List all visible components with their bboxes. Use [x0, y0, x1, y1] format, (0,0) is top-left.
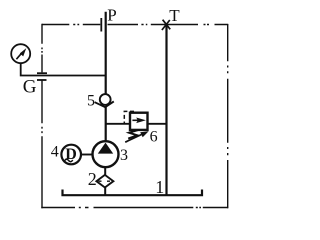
- wire: pump to filter: [104, 167, 106, 175]
- motor 4: [61, 145, 81, 165]
- pressure gauge: [11, 44, 30, 63]
- svg-text:D: D: [65, 146, 77, 163]
- relief valve 6 pilot line (dashed): [124, 111, 134, 123]
- svg-text:G: G: [23, 76, 37, 97]
- measuring coupling tick upper: [37, 72, 47, 74]
- svg-text:1: 1: [155, 177, 164, 197]
- port T plug mark (X): [162, 20, 170, 30]
- svg-text:2: 2: [88, 169, 97, 189]
- pump 3: [93, 141, 119, 167]
- enclosure boundary top edge (chain line): [42, 24, 100, 26]
- svg-text:T: T: [169, 6, 180, 25]
- motor shaft: [81, 154, 93, 156]
- svg-text:5: 5: [87, 93, 95, 110]
- tank (open reservoir): [63, 190, 203, 196]
- port P boundary tick: [100, 18, 102, 32]
- relief valve 6 body: [130, 113, 148, 130]
- relief valve 6 spring: [128, 130, 138, 139]
- enclosure boundary right edge (chain line): [227, 24, 229, 208]
- wire: T return line down to tank: [165, 25, 167, 196]
- svg-text:6: 6: [150, 128, 158, 145]
- enclosure boundary left edge (chain line): [41, 24, 43, 73]
- wire: relief valve outlet to T line: [148, 123, 167, 125]
- svg-text:4: 4: [51, 144, 59, 161]
- wire: filter to tank: [104, 188, 106, 196]
- filter 2: [96, 175, 113, 188]
- motor AC tilde: [64, 159, 72, 161]
- svg-text:3: 3: [120, 147, 128, 164]
- wire: P port line: [105, 12, 107, 95]
- relief valve 6 adjusting arrow: [125, 135, 141, 143]
- measuring coupling tick lower: [37, 79, 47, 81]
- wire: gauge stem: [21, 63, 106, 75]
- svg-text:P: P: [107, 6, 116, 25]
- check valve 5 (ball in seat): [100, 94, 111, 105]
- gauge needle: [16, 53, 21, 59]
- wire: check valve to pump: [105, 107, 107, 142]
- wire: relief valve inlet branch: [106, 123, 130, 125]
- relief valve 6 flow arrow: [132, 119, 138, 121]
- enclosure boundary bottom edge (chain line): [41, 207, 228, 209]
